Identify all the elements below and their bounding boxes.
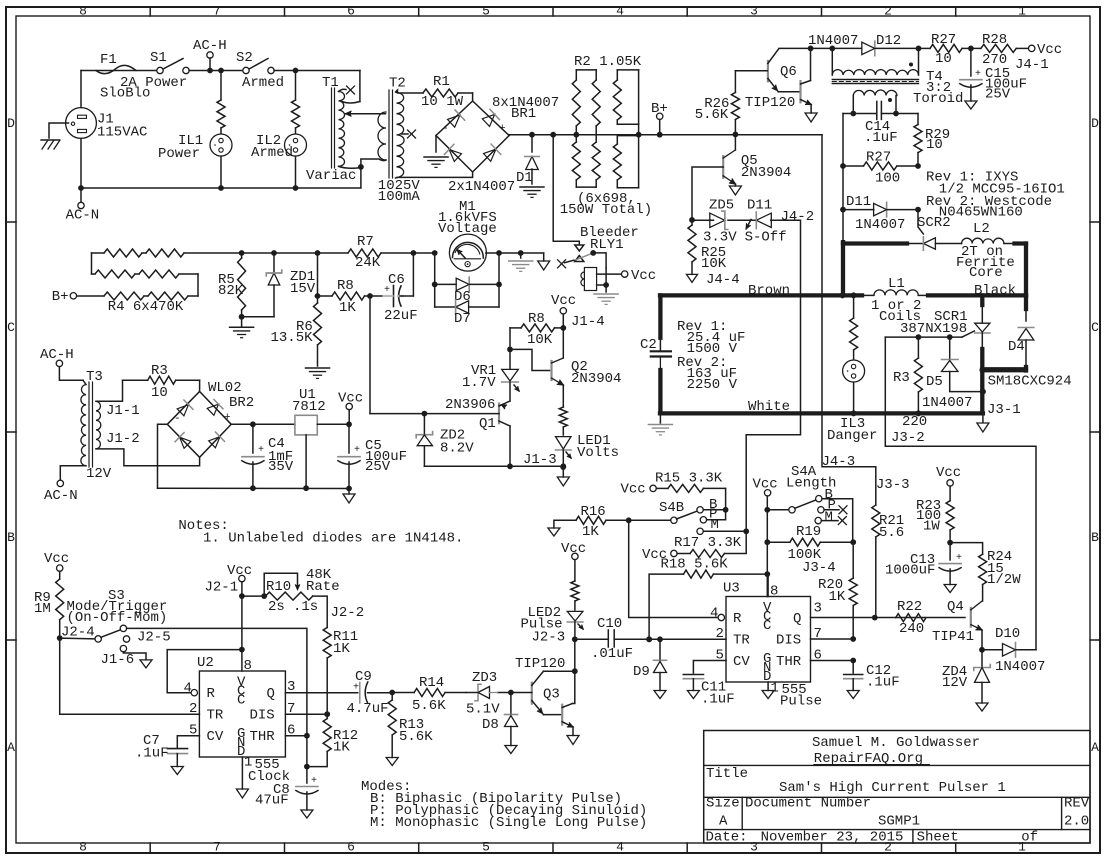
wire Q6 top rail [779, 47, 832, 49]
wire C14 bus [843, 113, 877, 115]
diode D8 [510, 693, 512, 714]
junction dots Brown rail [840, 292, 846, 298]
svg-text:Vcc: Vcc [44, 551, 69, 567]
svg-text:D7: D7 [454, 311, 471, 327]
svg-text:12V: 12V [942, 675, 968, 691]
svg-text:J4-4: J4-4 [706, 272, 740, 288]
node Vcc relay terminal [622, 271, 628, 277]
resistor R20 1K [852, 542, 854, 578]
ground chassis Q6 emitter [810, 105, 812, 114]
svg-text:Toroid: Toroid [913, 91, 963, 107]
svg-text:2.0: 2.0 [1064, 814, 1089, 830]
svg-text:J2-2: J2-2 [331, 605, 365, 621]
junction dots meter rail [239, 250, 245, 256]
resistor R25 10K [691, 220, 693, 225]
svg-text:AC-H: AC-H [40, 347, 74, 363]
svg-text:A: A [719, 814, 728, 830]
svg-text:8: 8 [770, 584, 778, 600]
ground chassis C11 [687, 691, 699, 699]
LED LED1 Volts [556, 437, 572, 449]
wire T2 sec bottom [396, 172, 473, 178]
wire U3 DIS [811, 638, 854, 640]
svg-text:.1uF: .1uF [864, 130, 898, 146]
svg-text:R27: R27 [866, 150, 891, 166]
svg-text:3: 3 [750, 840, 758, 855]
svg-text:10: 10 [935, 51, 952, 67]
wire S2 to T1 [274, 70, 360, 72]
svg-text:8.2V: 8.2V [440, 441, 474, 457]
ground D1 [520, 186, 544, 188]
svg-text:2N3904: 2N3904 [571, 371, 621, 387]
zener ZD2 8.2V [423, 414, 425, 435]
wire D4 heavy jog [1024, 367, 1028, 371]
svg-text:CV: CV [207, 729, 224, 745]
svg-text:1N4007: 1N4007 [995, 659, 1045, 675]
svg-text:5: 5 [482, 4, 490, 19]
svg-text:C6: C6 [388, 272, 405, 288]
svg-text:8: 8 [79, 4, 87, 19]
wire U3 Vcc column [764, 490, 770, 496]
resistor R16 1K [548, 528, 560, 536]
wire Q2 base link [510, 349, 550, 370]
svg-text:J1-6: J1-6 [101, 652, 135, 668]
capacitor C15 100uF 25V [970, 48, 972, 76]
ground chassis C13 [944, 585, 956, 593]
wire T4 left heavy drop [842, 210, 844, 243]
thyristor SCR2 [907, 243, 923, 245]
svg-text:J1-2: J1-2 [106, 431, 140, 447]
svg-text:115VAC: 115VAC [97, 125, 147, 141]
bridge BR2 diodes [176, 400, 193, 417]
wire rail J1-3 [424, 465, 563, 467]
svg-text:T3: T3 [86, 369, 103, 385]
transformer T1 Variac core [331, 88, 333, 168]
ground R6 [306, 367, 330, 369]
wire S4A B leg [822, 499, 853, 543]
node AC-H terminal T3 [56, 360, 62, 366]
transformer T4 core [832, 79, 918, 81]
svg-text:Samuel M. Goldwasser: Samuel M. Goldwasser [812, 735, 980, 751]
ground chassis D9 [654, 691, 666, 699]
wire LED1 gnd dot [560, 464, 566, 470]
svg-text:J1-4: J1-4 [571, 314, 605, 330]
svg-text:N0465WN160: N0465WN160 [939, 205, 1023, 221]
wire AC-N bottom rail [81, 187, 361, 189]
svg-text:B+: B+ [651, 101, 668, 117]
bridge BR2 diamond [167, 392, 231, 458]
junction dots B+ rail [529, 132, 535, 138]
junction dots regulator gnd [250, 485, 256, 491]
svg-text:SM18CXC924: SM18CXC924 [988, 374, 1072, 390]
ground meter rail [520, 253, 522, 258]
svg-text:AC-N: AC-N [44, 488, 78, 504]
resistor R17 3.3K [671, 550, 677, 556]
wire Q6b collector up [810, 48, 812, 80]
resistor R1 10 1W [423, 89, 458, 97]
transformer T4 secondary [853, 90, 897, 96]
capacitor C13 1000uF [949, 543, 951, 560]
wire U2 Q to C9 [285, 692, 357, 694]
ground chassis R25 J4-4 [687, 274, 698, 282]
svg-text:5.6K: 5.6K [399, 729, 433, 745]
svg-text:8: 8 [244, 658, 252, 674]
node AC-N terminal T3 [57, 480, 63, 486]
wire Black rail heavy [928, 293, 1026, 297]
wire BR2 plus to U1 [231, 423, 295, 425]
ground chassis arrow meter [543, 253, 545, 261]
ground chassis R13 [386, 758, 398, 766]
LED LED2 Pulse [567, 611, 583, 621]
relay RLY1 coil [584, 268, 596, 291]
svg-text:1000uF: 1000uF [885, 563, 935, 579]
svg-text:D4: D4 [1008, 339, 1025, 355]
resistor R27b 100 [843, 165, 864, 167]
svg-text:47uF: 47uF [255, 793, 289, 809]
svg-text:J2-4: J2-4 [61, 625, 95, 641]
svg-text:220: 220 [902, 414, 927, 430]
svg-text:387NX198: 387NX198 [900, 321, 967, 337]
transformer T3 primary [81, 385, 86, 466]
svg-text:J3-2: J3-2 [891, 430, 925, 446]
varistor VR1 1.7V [509, 349, 511, 369]
transistor Q6 TIP120 second [799, 81, 801, 102]
wire R5-ZD1 bottom [242, 316, 274, 318]
no-connect X S4A P [824, 509, 839, 511]
meter M1 1.6kVFS [449, 234, 486, 271]
wire Q6 base link [735, 70, 767, 72]
ground chassis J1-3 [562, 466, 564, 477]
svg-text:+: + [311, 776, 317, 787]
svg-text:Core: Core [969, 265, 1003, 281]
svg-text:.1s: .1s [293, 599, 318, 615]
svg-text:3: 3 [750, 4, 758, 19]
ground chassis Q3 emitter [572, 727, 574, 736]
ic U2 CV to C7 [177, 736, 199, 748]
wire LED2 to C10 node [575, 638, 609, 640]
resistor IL1 ballast [220, 71, 222, 101]
capacitor C7 .1uF [168, 748, 188, 750]
ground BR1 [424, 156, 448, 158]
svg-text:+: + [258, 445, 264, 456]
svg-text:BR2: BR2 [229, 395, 254, 411]
ground chassis C12 [847, 691, 859, 699]
wire S4B M to R17 [703, 530, 746, 532]
ic U2 555 box [199, 671, 285, 757]
resistor Q2 emitter [562, 385, 564, 407]
node B+ terminal left [70, 293, 76, 299]
ic U3 gnd pin1 [767, 682, 769, 691]
svg-text:Pulse: Pulse [780, 694, 822, 710]
svg-text:D11: D11 [846, 194, 871, 210]
node Vcc J4-1 terminal [1029, 45, 1035, 51]
transformer T3 core [88, 382, 90, 467]
svg-text:4.7uF: 4.7uF [347, 701, 389, 717]
svg-text:-: - [442, 123, 449, 135]
svg-text:R14: R14 [419, 675, 444, 691]
capacitor C14 .1uF [876, 101, 878, 119]
node Vcc J2-1 [239, 575, 245, 581]
svg-text:Voltage: Voltage [438, 221, 497, 237]
svg-text:1M: 1M [34, 601, 51, 617]
capacitor C2 leg heavy [658, 295, 662, 337]
svg-text:J3-3: J3-3 [876, 477, 910, 493]
svg-text:D1: D1 [516, 170, 533, 186]
resistor IL3 ballast [853, 295, 855, 318]
svg-text:Q6: Q6 [780, 64, 797, 80]
svg-text:Danger: Danger [827, 428, 877, 444]
wire R7 branch down [317, 253, 319, 296]
wire SCR1 gate line [885, 336, 962, 338]
svg-text:L2: L2 [973, 221, 990, 237]
svg-text:J2-5: J2-5 [137, 630, 171, 646]
svg-text:Variac: Variac [306, 168, 356, 184]
ic U3 CV C11 [693, 661, 726, 674]
wire R8b left down [509, 328, 511, 350]
wire White rail heavy [660, 411, 983, 415]
wire U2 reset loop [167, 650, 242, 693]
svg-text:Sam's High Current Pulser 1: Sam's High Current Pulser 1 [779, 780, 1006, 796]
ground chassis C15 [965, 101, 977, 109]
wire D6 D7 loop right [498, 253, 500, 307]
capacitor C12 .1uF [852, 661, 854, 674]
node Vcc U1 output [346, 403, 352, 409]
svg-text:F1: F1 [100, 52, 117, 68]
transistor Q4 TIP41 [970, 608, 972, 627]
relay RLY1 contact [575, 245, 584, 251]
svg-text:B: B [7, 530, 15, 545]
ic U2 gnd pin1 [241, 757, 243, 789]
node Vcc J1-4 [560, 308, 566, 314]
junction dots bottom rail [78, 185, 84, 191]
wire J1 hot lead up [80, 71, 82, 108]
svg-text:.1uF: .1uF [701, 692, 735, 708]
node Vcc LED2 [572, 553, 578, 559]
svg-text:J3-4: J3-4 [802, 560, 836, 576]
transistor Q3 TIP120 second [561, 705, 563, 725]
wire R10 to R11 [313, 596, 328, 627]
svg-text:Vcc: Vcc [936, 465, 961, 481]
capacitor C5 100uF 25V [348, 424, 350, 453]
svg-text:5.1V: 5.1V [466, 702, 500, 718]
ground C5 chassis [348, 489, 350, 495]
transformer T2 core [388, 90, 390, 178]
wire B+ rail to Q5 node [660, 134, 822, 136]
resistor LED2 ballast [571, 581, 579, 601]
svg-text:C: C [7, 320, 15, 335]
svg-text:M: M [825, 510, 833, 526]
svg-text:Vcc: Vcc [561, 541, 586, 557]
svg-text:R18 5.6K: R18 5.6K [661, 557, 729, 573]
svg-text:R7: R7 [357, 234, 374, 250]
resistor R8b 10K [510, 327, 521, 329]
wire C10 to U3 TR [614, 638, 726, 640]
svg-text:Document Number: Document Number [745, 796, 871, 812]
wire Brown rail heavy [660, 293, 862, 297]
resistor R19 100K [767, 541, 790, 543]
wire D6 D7 loop left [434, 253, 436, 307]
resistor network R4 row2 [92, 273, 96, 275]
svg-text:1N4007: 1N4007 [922, 395, 972, 411]
svg-text:5: 5 [482, 840, 490, 855]
svg-text:Vcc: Vcc [631, 268, 656, 284]
wire U3 Q output [811, 617, 966, 619]
ground chassis J1-6 [140, 660, 152, 668]
svg-text:BR1: BR1 [511, 106, 536, 122]
ic U2 pin4 reset circle [191, 690, 197, 696]
svg-text:THR: THR [250, 729, 276, 745]
svg-text:TR: TR [733, 633, 750, 649]
svg-text:R15 3.3K: R15 3.3K [655, 471, 723, 487]
svg-text:R16: R16 [581, 504, 606, 520]
diode D4 [1024, 295, 1028, 309]
switch S2 Armed [243, 67, 249, 73]
capacitor C4 1mF 35V [252, 424, 254, 453]
svg-text:U3: U3 [723, 581, 740, 597]
no-connect X on T1 [339, 89, 347, 91]
svg-text:100mA: 100mA [378, 189, 421, 205]
diode D11 s-off [728, 219, 756, 221]
svg-text:35V: 35V [268, 459, 294, 475]
diode D7 [435, 306, 456, 308]
svg-text:1K: 1K [339, 300, 356, 316]
resistor R15 3.3K [650, 485, 656, 491]
wire Q5 collector up [734, 134, 736, 150]
transformer T1 winding [339, 92, 345, 167]
wire SCR2 gate [918, 210, 923, 234]
svg-text:R10: R10 [266, 579, 291, 595]
svg-text:Brown: Brown [748, 283, 790, 299]
capacitor C2 plates [651, 350, 671, 352]
svg-text:THR: THR [776, 654, 802, 670]
svg-text:TIP120: TIP120 [515, 656, 565, 672]
svg-text:1K: 1K [829, 589, 846, 605]
wire SCR1 cathode heavy [981, 333, 983, 349]
svg-text:U2: U2 [197, 655, 214, 671]
wire SCR2 anode heavy [843, 241, 907, 245]
svg-text:10K: 10K [701, 256, 727, 272]
wire U3 THR [811, 660, 854, 662]
svg-text:10: 10 [926, 137, 943, 153]
connector J1 115VAC [66, 108, 97, 139]
diode D12 1N4007 [832, 47, 861, 49]
svg-text:of: of [1021, 830, 1038, 846]
switch S4A [767, 509, 789, 511]
resistor R22 240 [896, 614, 926, 622]
junction dot T1-T2 [358, 164, 364, 170]
node B+ terminal top [657, 113, 663, 119]
svg-text:R19: R19 [796, 524, 821, 540]
wire BR2 minus leg [158, 424, 168, 488]
svg-text:Rate: Rate [306, 579, 340, 595]
svg-text:Armed: Armed [242, 75, 284, 91]
svg-text:7: 7 [213, 840, 221, 855]
svg-text:J3-1: J3-1 [987, 402, 1021, 418]
svg-text:R2 1.05K: R2 1.05K [574, 54, 642, 70]
ground R5 [230, 326, 254, 328]
resistor R11 1K [323, 628, 331, 659]
resistor network R4 left bracket [91, 253, 93, 274]
svg-text:S1: S1 [150, 50, 167, 66]
potentiometer R10 48K Rate [242, 595, 264, 597]
wire S4B B-P tie [703, 509, 725, 511]
wire U1 ground leg [305, 435, 307, 488]
svg-text:Vcc: Vcc [1037, 42, 1062, 58]
capacitor C10 .01uF [607, 630, 609, 647]
resistor R14 5.6K [392, 692, 414, 694]
svg-text:SloBlo: SloBlo [100, 86, 150, 102]
transformer T4 primary [831, 48, 833, 75]
resistor R9 1M [56, 579, 64, 620]
svg-text:AC-H: AC-H [193, 38, 227, 54]
svg-text:2x1N4007: 2x1N4007 [448, 179, 515, 195]
svg-text:R22: R22 [897, 599, 922, 615]
wire U1 out to C5 [317, 423, 349, 425]
svg-text:C: C [237, 693, 245, 709]
svg-text:D12: D12 [876, 33, 901, 49]
svg-text:D: D [1091, 116, 1099, 131]
bridge BR1 diodes [446, 110, 464, 128]
diode D5 1N4007 [949, 337, 951, 358]
wire C6 node down to Q1 base [369, 296, 371, 414]
svg-text:S2: S2 [236, 50, 253, 66]
lamp IL1 Power [210, 134, 232, 156]
junction dots AC-H [207, 68, 213, 74]
svg-text:D8: D8 [482, 717, 499, 733]
svg-text:Date:: Date: [706, 830, 748, 846]
svg-text:Q4: Q4 [947, 599, 964, 615]
zener ZD3 5.1V [466, 692, 478, 694]
wire J4-3 net [822, 135, 876, 505]
diode D1 [531, 135, 533, 152]
wire regulator ground rail [158, 487, 350, 489]
svg-text:+: + [353, 683, 359, 694]
svg-text:1N4007: 1N4007 [855, 217, 905, 233]
ic U3 pin4 reset circle [718, 614, 724, 620]
wire Q3 base row [498, 692, 532, 694]
bridge BR1 diamond [436, 101, 509, 172]
svg-text:1. Unlabeled diodes are 1N4148: 1. Unlabeled diodes are 1N4148. [203, 531, 463, 547]
svg-text:Size: Size [706, 796, 740, 812]
svg-text:D5: D5 [926, 374, 943, 390]
svg-text:Sheet: Sheet [917, 830, 959, 846]
svg-text:Vcc: Vcc [338, 391, 363, 407]
wire T4 left leg [842, 114, 844, 167]
resistor R23 100 1W [946, 501, 954, 530]
svg-text:TIP41: TIP41 [932, 629, 974, 645]
svg-text:DIS: DIS [776, 633, 801, 649]
svg-text:A: A [7, 740, 15, 755]
svg-text:5.6K: 5.6K [412, 698, 446, 714]
svg-text:2N3906: 2N3906 [445, 397, 495, 413]
svg-text:6: 6 [347, 840, 355, 855]
wire L2 to Black heavy [1015, 241, 1027, 245]
resistor R27 10 [919, 47, 931, 49]
switch S1 Power [157, 67, 163, 73]
wire U2 pin8 Vcc [241, 596, 243, 671]
wire BR1 plus output [508, 134, 510, 137]
zener ZD5 3.3V [692, 219, 714, 221]
svg-text:D11: D11 [747, 198, 772, 214]
junction dot R8 node [315, 293, 321, 299]
svg-text:1.7V: 1.7V [462, 375, 496, 391]
svg-text:B+: B+ [52, 289, 69, 305]
ground C2 [659, 413, 661, 423]
wire meter rail right [486, 252, 544, 254]
svg-text:1: 1 [1018, 4, 1026, 19]
resistor network R4 right bracket [197, 274, 199, 296]
resistor network R2 lower-right [617, 135, 638, 137]
wire meter rail [242, 252, 348, 254]
